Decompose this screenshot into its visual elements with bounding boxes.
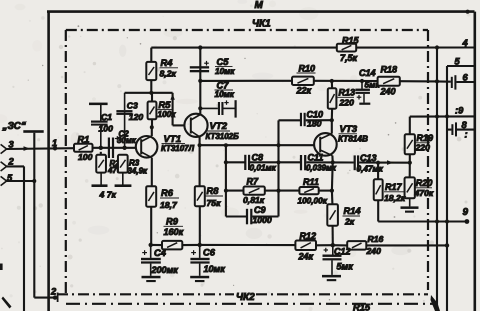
svg-text:75к: 75к [207,198,222,208]
svg-text:240: 240 [366,246,382,256]
svg-text:КТ3102Б: КТ3102Б [206,132,240,141]
svg-text:0,47мк: 0,47мк [357,165,384,174]
svg-text:R6: R6 [161,188,174,198]
svg-text:КТ3107Л: КТ3107Л [161,144,195,153]
svg-text:R11: R11 [303,177,319,187]
svg-text:VT2: VT2 [210,121,228,132]
svg-text:4: 4 [462,38,469,48]
svg-text:R14: R14 [344,206,362,216]
svg-text:4 7к: 4 7к [99,190,117,200]
svg-text:24к: 24к [298,252,314,262]
svg-text:С11: С11 [308,153,324,163]
svg-text:34,9к: 34,9к [128,166,149,175]
svg-text:R13: R13 [339,88,356,98]
svg-text:R9: R9 [166,217,179,227]
svg-text:100к: 100к [158,110,177,119]
svg-text:R5: R5 [159,100,172,110]
svg-text:100: 100 [78,152,93,162]
svg-text:10мк: 10мк [215,67,235,76]
svg-text:1000: 1000 [253,215,272,225]
svg-text::: : [465,130,468,140]
svg-text:0,01мк: 0,01мк [250,164,277,173]
svg-text:22к: 22к [296,86,312,96]
svg-text:5: 5 [455,57,461,67]
svg-text:470к: 470к [414,188,434,198]
svg-text:2: 2 [8,157,15,167]
svg-text::9: :9 [455,106,464,116]
svg-text:10мк: 10мк [204,264,226,274]
svg-text:1: 1 [52,138,57,148]
svg-text:ЧК1: ЧК1 [252,19,271,30]
svg-text:6: 6 [463,73,469,83]
svg-text:0,039мк: 0,039мк [306,164,337,173]
svg-text:30мк: 30мк [117,136,137,145]
svg-text:180: 180 [307,119,322,129]
svg-text:220: 220 [339,98,355,108]
svg-text:R20: R20 [416,178,433,188]
svg-text:R12: R12 [300,231,317,241]
svg-text:R7: R7 [247,177,260,187]
svg-text:R17: R17 [385,182,403,192]
svg-text:R10: R10 [299,64,316,74]
svg-text:R15: R15 [342,36,360,46]
svg-text:160к: 160к [164,227,184,237]
svg-text:КТ814В: КТ814В [338,135,368,144]
svg-text:ЧК2: ЧК2 [236,292,255,303]
svg-text:„ЗС“: „ЗС“ [2,121,26,132]
svg-text:18,7: 18,7 [160,200,178,210]
svg-text:5мк: 5мк [337,262,354,272]
svg-text:R16: R16 [368,234,384,244]
svg-text:R8: R8 [207,186,220,196]
svg-text:R18: R18 [381,65,399,75]
svg-text:R1: R1 [78,135,90,145]
svg-text:9: 9 [463,207,469,218]
svg-text:С13: С13 [360,153,377,163]
svg-text:R19: R19 [417,133,434,143]
svg-text:С12: С12 [334,247,351,257]
svg-text:100: 100 [99,124,114,134]
svg-text:10мк: 10мк [215,90,235,99]
svg-text:С8: С8 [252,153,265,163]
svg-text:200мк: 200мк [151,265,179,275]
svg-text:С6: С6 [203,248,216,258]
svg-text:100,00к: 100,00к [298,197,328,206]
svg-text:R4: R4 [161,58,174,68]
svg-text:7,5к: 7,5к [340,53,358,63]
svg-text:18,2к: 18,2к [384,193,406,203]
svg-text:220: 220 [415,143,431,153]
svg-text:R15: R15 [353,303,371,311]
svg-text:240: 240 [380,87,396,97]
svg-text:С3: С3 [127,101,138,111]
svg-text:0,81к: 0,81к [243,195,265,205]
svg-text:8: 8 [462,120,468,130]
svg-text:120: 120 [129,112,144,122]
svg-text:8,2к: 8,2к [160,69,177,79]
svg-text:С4: С4 [154,248,167,258]
svg-text:М: М [255,0,264,11]
svg-text:2к: 2к [344,217,355,227]
svg-text:С14: С14 [359,68,376,78]
svg-text:2: 2 [50,287,57,297]
svg-text:С5: С5 [217,57,230,67]
svg-text:С9: С9 [254,205,266,215]
svg-text:С1: С1 [101,112,112,122]
